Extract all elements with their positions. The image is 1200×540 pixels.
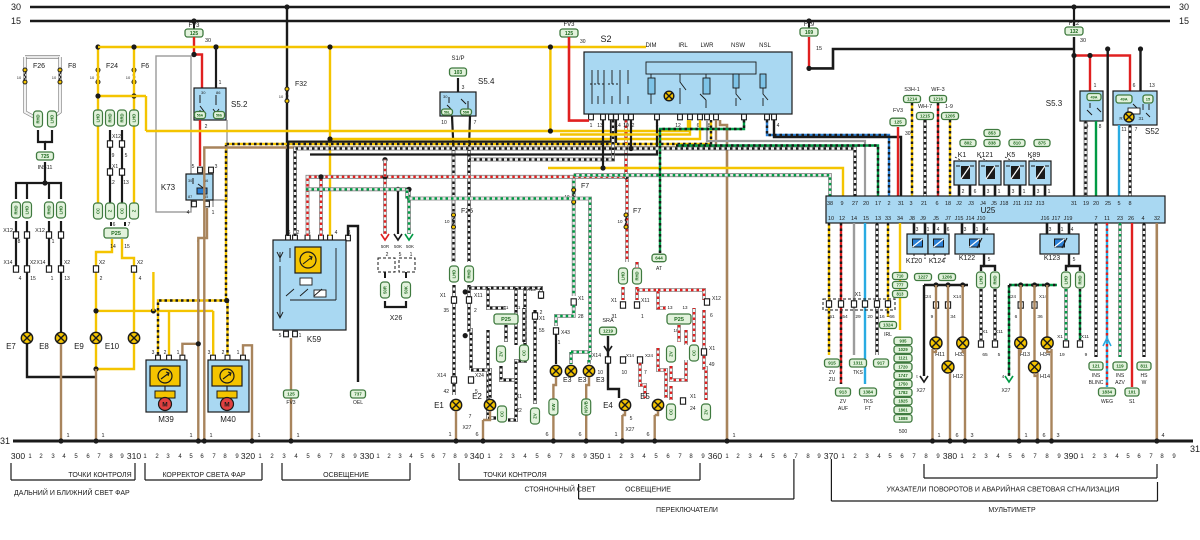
- svg-text:LHD: LHD: [25, 206, 30, 215]
- svg-text:RHD: RHD: [467, 269, 472, 278]
- svg-text:6: 6: [955, 433, 958, 439]
- wire K59 pin8: [348, 226, 358, 382]
- junction: [1105, 46, 1110, 51]
- svg-text:КОРРЕКТОР СВЕТА ФАР: КОРРЕКТОР СВЕТА ФАР: [162, 472, 245, 479]
- svg-text:FV3: FV3: [893, 108, 903, 114]
- junction: [318, 174, 323, 179]
- wire g/w F7 column: [572, 175, 576, 296]
- lamp E8: [55, 332, 66, 343]
- svg-text:E3: E3: [563, 377, 572, 384]
- fuse tag 1227: [915, 274, 932, 281]
- svg-text:M: M: [224, 402, 229, 409]
- svg-text:1: 1: [927, 227, 930, 233]
- svg-text:125: 125: [190, 31, 199, 37]
- junction: [806, 66, 811, 71]
- relay K124 box: [928, 234, 949, 254]
- junction: [382, 157, 387, 162]
- relay K73: [198, 167, 203, 173]
- svg-text:1121: 1121: [898, 356, 908, 361]
- svg-text:1205: 1205: [945, 114, 956, 119]
- svg-text:340: 340: [470, 451, 484, 461]
- wire b/w to X24: [469, 285, 471, 370]
- component 725 INS11: [37, 152, 54, 160]
- svg-text:21: 21: [921, 201, 927, 207]
- junction: [196, 438, 201, 443]
- svg-text:J13: J13: [1036, 201, 1045, 207]
- wire S2 pin13 drop: [602, 120, 604, 168]
- junction: [327, 44, 332, 49]
- svg-text:1: 1: [614, 432, 617, 438]
- svg-text:X11: X11: [474, 293, 483, 299]
- wire relay pin: [1033, 185, 1036, 196]
- lamp E10: [128, 332, 139, 343]
- wire: [121, 130, 123, 204]
- svg-text:34: 34: [950, 314, 956, 320]
- svg-text:ZV: ZV: [704, 409, 709, 415]
- connector RHD: [34, 111, 43, 127]
- svg-text:K122: K122: [959, 255, 975, 262]
- svg-text:E1: E1: [434, 401, 444, 410]
- svg-text:J16: J16: [1041, 216, 1050, 222]
- svg-text:6: 6: [935, 201, 938, 207]
- junction: [93, 438, 98, 443]
- wire yellow elbow down x146: [145, 96, 147, 131]
- svg-text:F29: F29: [804, 22, 815, 28]
- svg-text:1: 1: [1023, 189, 1026, 195]
- svg-text:15: 15: [124, 244, 130, 250]
- svg-text:2: 2: [205, 124, 208, 130]
- relay K121 box: [979, 161, 1001, 185]
- wire pin stub: [924, 223, 927, 234]
- relay K5 box: [1004, 161, 1026, 185]
- wire pin stub: [983, 223, 986, 234]
- connector box: [402, 282, 411, 298]
- lamp S2 illumination: [664, 91, 674, 101]
- wire relay pin: [1019, 185, 1022, 196]
- svg-text:J2: J2: [956, 201, 962, 207]
- wire E8 ground: [60, 344, 62, 441]
- svg-text:LHD: LHD: [452, 270, 457, 279]
- svg-text:330: 330: [360, 451, 374, 461]
- connector arrow 50R: [381, 234, 389, 240]
- wire H34 jog: [1047, 349, 1051, 352]
- svg-text:31: 31: [611, 314, 617, 320]
- wire to U25 pin25: [1106, 49, 1108, 196]
- junction: [584, 438, 589, 443]
- wire r/w P25 down: [677, 325, 681, 342]
- svg-text:1: 1: [296, 433, 299, 439]
- group bracket МУЛЬТИМЕТР: [831, 459, 1157, 501]
- junction: [945, 282, 950, 287]
- svg-text:725: 725: [41, 154, 50, 160]
- svg-text:5: 5: [125, 153, 128, 159]
- wire g/w link: [571, 352, 590, 360]
- wire r/w to P25: [658, 302, 666, 308]
- svg-text:X12: X12: [712, 296, 721, 302]
- svg-text:737: 737: [354, 392, 362, 397]
- wire E9 ground: [95, 369, 97, 441]
- wire H33 jog: [963, 349, 965, 352]
- fuse tag 915: [825, 359, 840, 367]
- motor M39 box: [146, 360, 187, 412]
- svg-text:BLINC: BLINC: [1089, 380, 1104, 386]
- junction: [960, 282, 965, 287]
- svg-text:12: 12: [839, 216, 845, 222]
- wire b/w 1215 to U25 pin21: [923, 120, 927, 196]
- svg-text:CC: CC: [522, 350, 527, 356]
- wire brown y147: [239, 120, 716, 148]
- svg-text:E3: E3: [578, 377, 587, 384]
- svg-text:1: 1: [1024, 433, 1027, 439]
- svg-text:56L: 56L: [444, 110, 451, 114]
- fuse tag 1324 IRL: [880, 322, 897, 329]
- svg-text:1: 1: [237, 350, 240, 356]
- svg-text:56A: 56A: [197, 113, 204, 117]
- relay K73 box: [186, 174, 213, 200]
- svg-text:K121: K121: [977, 152, 993, 159]
- svg-text:13: 13: [682, 305, 688, 310]
- wire yellow y47: [98, 46, 646, 48]
- svg-text:J15: J15: [955, 216, 964, 222]
- wire K73 pin1 brown: [198, 208, 207, 242]
- svg-text:J14: J14: [966, 216, 975, 222]
- wire H11 jog: [933, 349, 937, 352]
- connector X1: [451, 297, 456, 303]
- wire E4 ground b: [622, 411, 625, 415]
- svg-text:42: 42: [443, 389, 449, 395]
- svg-text:X27: X27: [626, 427, 635, 433]
- svg-text:350: 350: [590, 451, 604, 461]
- svg-text:1: 1: [448, 432, 451, 438]
- svg-text:X2: X2: [64, 260, 70, 266]
- wire b/w lower2: [508, 380, 516, 420]
- wire gray pin14: [853, 223, 855, 355]
- svg-text:ZV: ZV: [669, 351, 674, 357]
- wire: [109, 130, 111, 204]
- svg-text:OEL: OEL: [353, 400, 363, 406]
- svg-text:X1: X1: [440, 293, 446, 299]
- junction: [806, 18, 811, 23]
- svg-text:3: 3: [1012, 189, 1015, 195]
- svg-text:811: 811: [1140, 364, 1148, 369]
- wire brown H11: [935, 285, 937, 337]
- svg-text:51: 51: [829, 314, 835, 320]
- svg-text:S52: S52: [1145, 127, 1160, 136]
- junction: [551, 438, 556, 443]
- svg-text:M39: M39: [158, 415, 174, 424]
- wire to 725: [38, 130, 45, 150]
- svg-text:X1: X1: [982, 329, 988, 335]
- junction: [947, 438, 952, 443]
- svg-text:320: 320: [241, 451, 255, 461]
- wire stub: [405, 272, 407, 278]
- svg-text:CC: CC: [692, 350, 697, 356]
- svg-text:6: 6: [475, 432, 478, 438]
- svg-text:9: 9: [112, 153, 115, 159]
- svg-text:5: 5: [998, 352, 1001, 358]
- connector: [106, 203, 115, 219]
- connector boxes below K122: [977, 272, 986, 288]
- relay K59 box: [273, 240, 346, 330]
- svg-text:X2: X2: [137, 260, 143, 266]
- svg-text:710: 710: [897, 274, 905, 279]
- svg-text:1324: 1324: [883, 323, 894, 328]
- wire yellow y96: [98, 95, 146, 97]
- wire r/w col2 stub: [635, 262, 639, 268]
- wire F24 down: [97, 84, 99, 204]
- junction: [213, 44, 218, 49]
- connector X12 pin: [46, 232, 51, 238]
- svg-text:IRL: IRL: [678, 43, 688, 49]
- svg-text:4: 4: [1161, 433, 1164, 439]
- wire y/b 1214 to U25 pin3: [911, 103, 913, 196]
- wire P25 to E9: [96, 239, 112, 333]
- svg-text:310: 310: [127, 451, 141, 461]
- wire brown pin32: [1156, 223, 1159, 441]
- svg-text:500: 500: [899, 429, 908, 435]
- svg-text:1214: 1214: [907, 97, 918, 102]
- svg-text:1227: 1227: [918, 275, 929, 280]
- svg-text:S3H-1: S3H-1: [904, 87, 920, 93]
- svg-text:S5.2: S5.2: [231, 100, 248, 109]
- svg-text:1: 1: [1094, 83, 1097, 89]
- svg-text:LHD: LHD: [59, 206, 64, 215]
- connector LHD RHD E1 cluster: [450, 266, 459, 282]
- junction: [1016, 438, 1021, 443]
- wire r/w branch top2: [658, 290, 704, 300]
- lamp E4: [619, 399, 630, 410]
- fuse F32: [285, 87, 289, 103]
- junction: [724, 438, 729, 443]
- svg-text:10: 10: [597, 370, 603, 376]
- svg-text:50K: 50K: [404, 286, 409, 294]
- wire S5.4 pin10: [452, 116, 454, 149]
- bus line 15: [30, 20, 1170, 23]
- svg-text:6: 6: [1042, 433, 1045, 439]
- wire yellow y134: [560, 120, 690, 135]
- wire E7 to junction: [27, 344, 96, 377]
- wire relay pin: [1008, 185, 1011, 196]
- svg-text:4: 4: [937, 227, 940, 233]
- svg-text:3: 3: [970, 433, 973, 439]
- connector X14: [451, 377, 456, 383]
- relay K120 box: [907, 234, 928, 254]
- svg-text:X14: X14: [4, 260, 13, 266]
- svg-text:915: 915: [828, 361, 836, 366]
- svg-text:3: 3: [987, 189, 990, 195]
- svg-text:1: 1: [558, 340, 561, 346]
- svg-text:X26: X26: [390, 315, 403, 322]
- switch S2 internals: [590, 62, 768, 108]
- connector X1 k123: [1063, 341, 1068, 347]
- wire K122 branch r: [984, 261, 995, 271]
- svg-text:8: 8: [1099, 124, 1102, 130]
- svg-text:8: 8: [18, 239, 21, 245]
- svg-text:30: 30: [201, 90, 206, 95]
- svg-text:LHD: LHD: [621, 272, 626, 281]
- svg-text:RHD: RHD: [993, 275, 998, 284]
- svg-text:25: 25: [1105, 201, 1111, 207]
- svg-text:U25: U25: [981, 206, 996, 215]
- svg-text:20: 20: [863, 201, 869, 207]
- junction: [463, 333, 468, 338]
- wire yellow pin34: [899, 223, 901, 330]
- connector: [130, 203, 139, 219]
- svg-text:AT: AT: [656, 266, 662, 272]
- wire g/w below K123 l: [1064, 289, 1068, 340]
- connector U25 box: [826, 196, 1165, 223]
- svg-text:E7: E7: [6, 342, 16, 351]
- wire E5 ground: [654, 415, 656, 441]
- component S5.2 box: [194, 88, 226, 120]
- wire pin stub: [1058, 223, 1061, 234]
- wire g/w y175: [574, 175, 830, 196]
- svg-text:3: 3: [1056, 433, 1059, 439]
- svg-text:1: 1: [937, 433, 940, 439]
- svg-text:ZV: ZV: [499, 351, 504, 357]
- junction: [191, 52, 196, 57]
- svg-text:3: 3: [215, 164, 218, 170]
- svg-text:19: 19: [1083, 201, 1089, 207]
- svg-text:ТОЧКИ КОНТРОЛЯ: ТОЧКИ КОНТРОЛЯ: [68, 472, 131, 479]
- svg-text:F26: F26: [33, 63, 45, 70]
- wire K122 pin5: [983, 254, 985, 261]
- svg-text:X14: X14: [37, 260, 46, 266]
- connector X1: [107, 169, 112, 175]
- svg-text:28: 28: [578, 314, 584, 320]
- wire g/b to 644: [660, 120, 744, 253]
- wire F24 top stub: [97, 47, 99, 84]
- svg-text:X12: X12: [35, 228, 45, 234]
- svg-text:Z: Z: [132, 209, 137, 212]
- svg-text:FV3: FV3: [286, 400, 295, 406]
- wire pin stub: [1046, 223, 1049, 234]
- wire K59 ground: [290, 338, 292, 441]
- wire to U25 pin31: [1073, 56, 1075, 197]
- svg-text:1834: 1834: [1102, 390, 1113, 395]
- svg-text:X27: X27: [917, 388, 926, 394]
- wire stub: [384, 272, 386, 278]
- wire H33 ground: [964, 349, 966, 441]
- svg-text:LHD: LHD: [1064, 276, 1069, 285]
- svg-text:ОСВЕЩЕНИЕ: ОСВЕЩЕНИЕ: [323, 472, 369, 479]
- fuse F7: [572, 188, 576, 204]
- wire r/w up leg: [692, 308, 696, 342]
- svg-text:INS: INS: [1116, 373, 1125, 379]
- wire K123 branch r: [1069, 261, 1080, 271]
- svg-text:13: 13: [64, 276, 70, 282]
- svg-text:X27: X27: [463, 425, 472, 431]
- svg-text:E3: E3: [596, 377, 605, 384]
- svg-text:X1: X1: [690, 394, 696, 400]
- junction: [1087, 53, 1092, 58]
- wire E1 ground: [455, 411, 457, 441]
- svg-text:F7: F7: [581, 183, 589, 190]
- wire to M40 pin3: [212, 311, 214, 360]
- svg-text:RHD: RHD: [1078, 275, 1083, 284]
- svg-text:65: 65: [982, 352, 988, 358]
- svg-text:31: 31: [1190, 444, 1200, 454]
- wire g/w to X26: [407, 189, 411, 234]
- svg-text:X24: X24: [1008, 294, 1017, 299]
- junction: [480, 438, 485, 443]
- svg-text:2: 2: [386, 252, 389, 258]
- svg-text:LHD: LHD: [50, 115, 55, 124]
- svg-text:J4: J4: [980, 201, 986, 207]
- svg-text:6: 6: [947, 227, 950, 233]
- wire M40 pin1: [243, 345, 252, 441]
- connector code box KW: [549, 399, 558, 415]
- svg-text:3: 3: [916, 227, 919, 233]
- wire brown H12: [947, 285, 949, 361]
- wire pin stub: [961, 223, 964, 234]
- connector X11: [992, 341, 997, 347]
- wire r/w to X1: [621, 287, 625, 300]
- fuse F7 b: [624, 213, 628, 229]
- wire relay pin: [994, 185, 997, 196]
- svg-text:WEG: WEG: [1101, 399, 1113, 405]
- svg-text:X24: X24: [923, 294, 932, 299]
- svg-text:6: 6: [578, 432, 581, 438]
- svg-text:50R: 50R: [381, 244, 390, 249]
- group bracket ПЕРЕКЛЮЧАТЕЛИ: [579, 459, 794, 499]
- svg-text:1384: 1384: [863, 390, 874, 395]
- svg-text:31: 31: [898, 201, 904, 207]
- wire b/w F25 column: [452, 149, 456, 263]
- wire S5.3 pin8: [1095, 121, 1097, 196]
- junction: [93, 308, 98, 313]
- svg-text:H12: H12: [953, 374, 963, 380]
- svg-text:ТОЧКИ КОНТРОЛЯ: ТОЧКИ КОНТРОЛЯ: [483, 472, 546, 479]
- svg-text:INS: INS: [1092, 373, 1101, 379]
- wire E2 ground: [482, 420, 484, 441]
- svg-text:J5: J5: [933, 216, 939, 222]
- svg-text:J10: J10: [977, 216, 986, 222]
- connector X43: [553, 328, 558, 334]
- junction: [548, 44, 553, 49]
- wire g/b below K123 r: [1079, 289, 1081, 340]
- svg-text:F8: F8: [68, 63, 76, 70]
- fuse tag 101 S1: [1125, 388, 1139, 396]
- wire b/w leg b: [516, 288, 525, 380]
- group bracket КОРРЕКТОР СВЕТА ФАР: [145, 463, 262, 480]
- junction: [131, 44, 136, 49]
- connector LHD: [48, 111, 57, 127]
- wire b/w top rail to X12: [469, 288, 541, 299]
- svg-text:4: 4: [139, 276, 142, 282]
- connector X14 h13: [1032, 302, 1037, 308]
- svg-text:LHD: LHD: [96, 114, 101, 123]
- svg-text:935: 935: [900, 339, 908, 344]
- svg-text:380: 380: [943, 451, 957, 461]
- wire yellow y168: [548, 168, 843, 196]
- svg-text:FV3: FV3: [563, 22, 575, 28]
- connector X14: [46, 266, 51, 272]
- svg-text:X11: X11: [995, 329, 1004, 335]
- svg-text:X12: X12: [527, 287, 536, 293]
- wire F22 stub: [1073, 7, 1075, 26]
- wire pin stub: [913, 223, 916, 234]
- junction: [453, 438, 458, 443]
- wire S5.2 pin1 feed: [215, 47, 217, 88]
- connector X24 h13: [1018, 302, 1023, 308]
- svg-text:390: 390: [1064, 451, 1078, 461]
- svg-text:169: 169: [805, 30, 814, 36]
- wire r/w to E5 lamp: [640, 363, 645, 398]
- wire yellow/black: [887, 223, 889, 317]
- svg-text:ПЕРЕКЛЮЧАТЕЛИ: ПЕРЕКЛЮЧАТЕЛИ: [656, 507, 718, 514]
- svg-text:AZV: AZV: [1115, 380, 1125, 386]
